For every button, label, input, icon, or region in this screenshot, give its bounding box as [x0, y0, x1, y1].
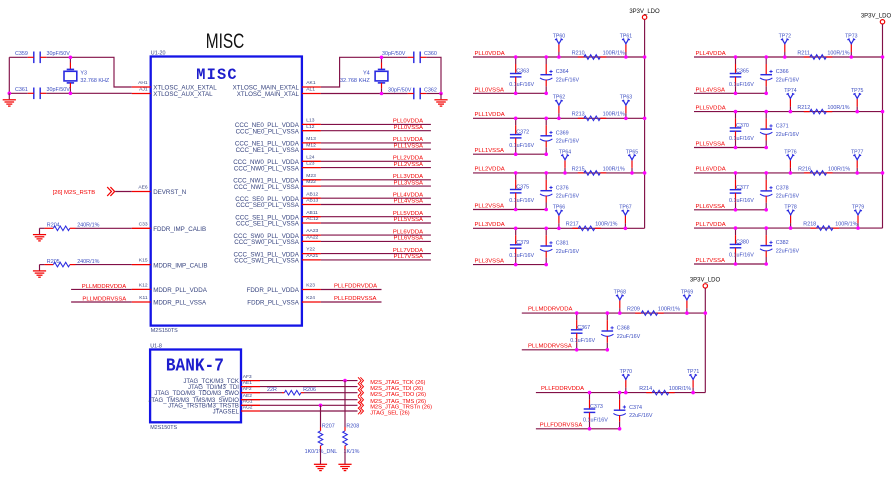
svg-text:TP62: TP62	[553, 95, 566, 101]
svg-text:L12: L12	[306, 124, 314, 130]
svg-text:CCC_SW1_PLL_VSSA: CCC_SW1_PLL_VSSA	[234, 258, 300, 265]
junction PLL6VSSA at C378	[764, 208, 768, 212]
svg-text:C372: C372	[516, 130, 529, 136]
svg-text:U1-20: U1-20	[151, 51, 166, 57]
test point TP64	[564, 168, 566, 173]
pin AF2 JTAG_TDO/M3_TDO/M3_SWO of U1-8	[241, 392, 260, 394]
svg-text:R208: R208	[346, 423, 359, 429]
junction PLL6VDDA at 3P3V_LDO rail	[881, 171, 885, 175]
test point TP67	[624, 223, 626, 228]
wire AF3 to off-page	[260, 380, 358, 382]
resistor R211 100R/1%	[804, 56, 810, 58]
svg-text:100R/1%: 100R/1%	[603, 112, 625, 118]
junction node Y3 top	[69, 56, 73, 60]
wire net PLL4VDDA	[321, 197, 431, 199]
pin K24 FDDR_PLL_VSSA of U1-20	[302, 301, 321, 303]
svg-text:AA21: AA21	[306, 253, 318, 259]
wire XTLOSC_AUX_EXTAL top	[9, 56, 28, 58]
wire net PLL5VSSA	[694, 147, 766, 149]
svg-text:Y4: Y4	[363, 70, 370, 76]
svg-text:C360: C360	[424, 51, 437, 57]
svg-text:TP79: TP79	[852, 205, 865, 211]
wire net PLL5VSSA	[321, 222, 431, 224]
pin L23 CCC_NW0_PLL_VSSA of U1-20	[302, 167, 321, 169]
wire net PLL1VSSA	[321, 148, 431, 150]
svg-text:R213: R213	[572, 112, 585, 118]
capacitor C381 22uF/16V	[545, 228, 547, 235]
wire net PLL2VSSA	[473, 209, 546, 211]
capacitor C370 0.1uF/16V	[735, 112, 737, 119]
wire XTLOSC_MAIN_XTAL	[321, 93, 382, 95]
svg-text:M13: M13	[306, 136, 316, 142]
svg-text:PLLFDDRVDDA: PLLFDDRVDDA	[541, 386, 584, 392]
junction PLL2VDDA at TP65	[630, 171, 634, 175]
svg-text:TP76: TP76	[784, 149, 797, 155]
svg-text:100R/1%: 100R/1%	[669, 386, 691, 392]
svg-text:C378: C378	[776, 186, 789, 192]
svg-text:K11: K11	[139, 295, 148, 301]
svg-text:AF3: AF3	[243, 374, 252, 380]
svg-text:AE6: AE6	[138, 185, 148, 191]
junction PLL5VDDA at C370	[734, 110, 738, 114]
svg-text:MISC: MISC	[206, 30, 245, 53]
IC U1-8 BANK-7 block outline	[150, 350, 241, 423]
svg-text:0.1uF/16V: 0.1uF/16V	[729, 253, 754, 259]
wire net PLL6VDDA	[321, 234, 431, 236]
junction node R207 tap on JTAG_TRSTB	[319, 404, 323, 408]
svg-text:R211: R211	[797, 50, 810, 56]
test point TP61	[625, 52, 627, 57]
pin M13 CCC_NE1_PLL_VDDA of U1-20	[302, 142, 321, 144]
pin AA22 CCC_SW0_PLL_VSSA of U1-20	[302, 240, 321, 242]
capacitor C379 0.1uF/16V	[515, 228, 517, 235]
junction PLL6VDDA at C377	[734, 171, 738, 175]
junction PLLMDDRVSSA at C368	[606, 348, 610, 352]
svg-text:L24: L24	[306, 154, 314, 160]
junction PLLMDDRVDDA at TP68	[618, 311, 622, 315]
svg-text:L23: L23	[306, 161, 314, 167]
junction PLLMDDRVSSA at C367	[575, 348, 579, 352]
svg-text:22uF/16V: 22uF/16V	[776, 194, 800, 200]
resistor R212 100R/1%	[804, 111, 810, 113]
svg-text:22uF/16V: 22uF/16V	[629, 413, 653, 419]
svg-text:TP61: TP61	[620, 33, 633, 39]
junction PLL7VDDA at TP78	[789, 226, 793, 230]
svg-text:PLL0VSSA: PLL0VSSA	[475, 87, 505, 93]
svg-text:DEVRST_N: DEVRST_N	[153, 189, 186, 196]
svg-text:PLL0VDDA: PLL0VDDA	[393, 119, 423, 125]
svg-text:[26] M2S_RSTB: [26] M2S_RSTB	[53, 190, 96, 196]
test point TP62	[558, 113, 560, 118]
junction PLL1VDDA at TP62	[557, 117, 561, 121]
svg-text:AB11: AB11	[306, 210, 318, 216]
junction node ground left	[8, 92, 12, 96]
svg-text:32.768 KHZ: 32.768 KHZ	[340, 78, 370, 84]
svg-text:PLLMDDRVDDA: PLLMDDRVDDA	[528, 307, 572, 313]
junction node R208 tap on JTAG_TCK	[343, 379, 347, 383]
svg-text:100R/1%: 100R/1%	[603, 50, 625, 56]
wire net PLLMDDRVDDA to K12	[71, 288, 132, 290]
svg-text:PLLMDDRVSSA: PLLMDDRVSSA	[82, 296, 126, 302]
svg-text:C361: C361	[15, 87, 28, 93]
svg-text:0.1uF/16V: 0.1uF/16V	[583, 417, 608, 423]
junction PLL2VDDA at C375	[514, 171, 518, 175]
svg-text:C362: C362	[424, 87, 437, 93]
capacitor C363 0.1uF/16V	[515, 57, 517, 64]
svg-text:M2S150TS: M2S150TS	[151, 328, 178, 334]
svg-text:PLL1VSSA: PLL1VSSA	[475, 148, 505, 154]
svg-text:M22: M22	[306, 179, 316, 185]
svg-text:PLLMDDRVDDA: PLLMDDRVDDA	[82, 284, 126, 290]
wire 3P3V_LDO rail left column	[644, 19, 646, 228]
svg-text:0.1uF/16V: 0.1uF/16V	[570, 338, 595, 344]
svg-text:JTAGSEL: JTAGSEL	[213, 409, 240, 415]
pin L12 CCC_NE0_PLL_VSSA of U1-20	[302, 130, 321, 132]
svg-text:R214: R214	[639, 386, 652, 392]
junction PLL3VDDA at C381	[544, 227, 548, 231]
svg-text:TP63: TP63	[620, 95, 633, 101]
wire net PLL0VDDA	[321, 123, 431, 125]
svg-text:R217: R217	[566, 222, 579, 228]
svg-text:TP66: TP66	[553, 205, 566, 211]
wire net PLL7VSSA	[321, 259, 431, 261]
wire net PLL1VDDA	[321, 142, 431, 144]
svg-text:3P3V_LDO: 3P3V_LDO	[629, 9, 660, 15]
wire left vertical to ground	[8, 57, 10, 93]
junction PLL1VDDA at C369	[544, 117, 548, 121]
junction node Y4 top	[380, 56, 384, 60]
svg-text:TP68: TP68	[614, 290, 627, 296]
svg-text:AA22: AA22	[306, 235, 318, 241]
svg-text:AG2: AG2	[243, 404, 253, 410]
junction PLL4VSSA at C366	[764, 92, 768, 96]
junction PLLFDDRVDDA at C374	[618, 391, 622, 395]
svg-text:C381: C381	[556, 241, 569, 247]
svg-text:PLL0VDDA: PLL0VDDA	[475, 51, 505, 57]
svg-text:PLLMDDRVSSA: PLLMDDRVSSA	[528, 344, 572, 350]
svg-text:C369: C369	[556, 130, 569, 136]
svg-text:R215: R215	[572, 166, 585, 172]
test point TP63	[625, 113, 627, 118]
svg-text:FDDR_PLL_VDDA: FDDR_PLL_VDDA	[247, 287, 300, 294]
wire 3P3V_LDO rail right column	[882, 24, 884, 228]
off-page connector chevron M2S_JTAG_TDI (26)	[358, 383, 364, 390]
junction PLLMDDRVDDA at C367	[575, 311, 579, 315]
svg-text:PLL7VSSA: PLL7VSSA	[696, 258, 726, 264]
svg-text:CCC_NE0_PLL_VSSA: CCC_NE0_PLL_VSSA	[236, 128, 300, 135]
svg-text:100R/1%: 100R/1%	[658, 307, 680, 313]
svg-text:22R: 22R	[267, 387, 277, 393]
test point TP76	[789, 168, 791, 173]
resistor R216 100R/1%	[804, 172, 810, 174]
svg-text:R216: R216	[798, 166, 811, 172]
svg-text:0.1uF/16V: 0.1uF/16V	[729, 136, 754, 142]
junction PLL7VDDA at C382	[764, 226, 768, 230]
svg-text:AJ1: AJ1	[139, 87, 148, 93]
svg-text:R204: R204	[47, 223, 60, 229]
pin AA23 CCC_SW0_PLL_VDDA of U1-20	[302, 234, 321, 236]
svg-text:3P3V_LDO: 3P3V_LDO	[690, 278, 721, 284]
svg-text:K23: K23	[306, 283, 315, 289]
wire XTLOSC_AUX_XTAL bottom	[9, 92, 28, 94]
svg-text:AL1: AL1	[306, 87, 315, 93]
svg-text:PLL3VSSA: PLL3VSSA	[394, 180, 424, 186]
svg-text:CCC_NW1_PLL_VSSA: CCC_NW1_PLL_VSSA	[234, 184, 300, 191]
ground	[39, 265, 41, 271]
svg-text:JTAG_TDI/M3_TDI: JTAG_TDI/M3_TDI	[188, 385, 239, 391]
pin AA21 CCC_SW1_PLL_VSSA of U1-20	[302, 259, 321, 261]
svg-text:AA23: AA23	[306, 228, 318, 234]
svg-text:C373: C373	[590, 404, 603, 410]
pin K11 MDDR_PLL_VSSA of U1-20	[132, 301, 151, 303]
svg-text:AE2: AE2	[243, 393, 253, 399]
svg-text:22uF/16V: 22uF/16V	[556, 194, 580, 200]
svg-text:M2S_JTAG_TDI (26): M2S_JTAG_TDI (26)	[370, 386, 423, 392]
pin AB12 CCC_SE0_PLL_VDDA of U1-20	[302, 197, 321, 199]
junction PLL4VDDA at TP72	[783, 55, 787, 59]
wire net PLLMDDRVDDA	[522, 312, 706, 314]
svg-text:1K/1%: 1K/1%	[344, 449, 360, 455]
svg-text:K15: K15	[139, 258, 148, 264]
pin AF3 JTAG_TCK/M3_TCK of U1-8	[241, 380, 260, 382]
svg-text:C365: C365	[736, 69, 749, 75]
svg-text:240R/1%: 240R/1%	[77, 223, 99, 229]
svg-text:CCC_NE1_PLL_VSSA: CCC_NE1_PLL_VSSA	[236, 147, 300, 154]
wire R205 to K15	[76, 264, 132, 266]
test point TP75	[856, 107, 858, 112]
svg-text:32.768 KHZ: 32.768 KHZ	[80, 78, 109, 84]
svg-text:0.1uF/16V: 0.1uF/16V	[509, 82, 534, 88]
svg-text:PLL6VSSA: PLL6VSSA	[394, 236, 424, 242]
svg-text:AF2: AF2	[243, 386, 252, 392]
svg-text:100R/1%: 100R/1%	[827, 50, 849, 56]
svg-text:PLL2VDDA: PLL2VDDA	[393, 156, 423, 162]
svg-text:M2S_JTAG_TDO (26): M2S_JTAG_TDO (26)	[370, 392, 426, 398]
svg-text:PLLFDDRVSSA: PLLFDDRVSSA	[334, 296, 377, 302]
wire net PLLFDDRVSSA	[536, 428, 620, 430]
test point TP60	[558, 52, 560, 57]
capacitor C360 30pF/50V	[414, 52, 420, 64]
pin AE2 JTAG_TMS/M3_TMS/M3_SWDIO of U1-8	[241, 399, 260, 401]
wire C360 to rail	[426, 57, 441, 93]
junction PLL0VSSA at C364	[544, 92, 548, 96]
off-page connector chevron M2S_JTAG_TCK (26)	[358, 377, 364, 384]
svg-text:XTLOSC_MAIN_XTAL: XTLOSC_MAIN_XTAL	[237, 91, 300, 98]
capacitor C372 0.1uF/16V	[515, 118, 517, 125]
test point TP72	[784, 52, 786, 57]
pin AE6 DEVRST_N of U1-20	[132, 191, 151, 193]
junction PLL0VDDA at 3P3V_LDO rail	[643, 55, 647, 59]
svg-text:PLL0VSSA: PLL0VSSA	[394, 125, 424, 131]
junction PLL0VDDA at TP61	[624, 55, 628, 59]
wire net PLLFDDRVDDA	[536, 392, 705, 394]
svg-text:MISC: MISC	[196, 66, 238, 84]
wire 3P3V_LDO rail mddr/fddr	[704, 288, 706, 393]
svg-text:PLL2VSSA: PLL2VSSA	[394, 162, 424, 168]
junction PLLFDDRVSSA at C373	[588, 427, 592, 431]
capacitor C361 30pF/50V	[34, 88, 40, 100]
pin AL1 XTLOSC_MAIN_XTAL of U1-20	[302, 93, 321, 95]
svg-text:FDDR_IMP_CALIB: FDDR_IMP_CALIB	[153, 226, 206, 233]
junction PLL6VDDA at TP77	[855, 171, 859, 175]
svg-text:TP77: TP77	[851, 149, 864, 155]
svg-text:PLL2VSSA: PLL2VSSA	[475, 204, 505, 210]
svg-text:0.1uF/16V: 0.1uF/16V	[729, 198, 754, 204]
svg-text:C364: C364	[556, 69, 569, 75]
resistor R210 100R/1%	[578, 56, 584, 58]
pin M23 CCC_NW1_PLL_VDDA of U1-20	[302, 179, 321, 181]
wire net PLL7VSSA	[694, 263, 766, 265]
svg-text:R209: R209	[627, 307, 640, 313]
wire net PLL3VDDA	[473, 227, 645, 229]
pin AH1 XTLOSC_AUX_EXTAL of U1-20	[132, 86, 151, 88]
ground	[338, 464, 351, 470]
resistor R206 22R	[282, 392, 284, 394]
svg-text:C380: C380	[736, 240, 749, 246]
junction PLL0VSSA at C363	[514, 92, 518, 96]
junction PLL4VSSA at C365	[734, 92, 738, 96]
pin L13 CCC_NE0_PLL_VDDA of U1-20	[302, 123, 321, 125]
svg-text:TP78: TP78	[784, 205, 797, 211]
junction PLL7VDDA at C380	[734, 226, 738, 230]
junction PLL1VSSA at C369	[544, 152, 548, 156]
svg-text:R207: R207	[322, 423, 335, 429]
crystal Y4 32.768 KHZ	[381, 57, 383, 62]
wire net PLLMDDRVSSA	[522, 349, 608, 351]
test point TP70	[625, 388, 627, 393]
capacitor C375 0.1uF/16V	[515, 173, 517, 180]
svg-text:30pF/50V: 30pF/50V	[382, 51, 406, 57]
wire net PLL4VDDA	[694, 56, 883, 58]
resistor R207 1K0/1% DNL	[320, 405, 322, 427]
wire net PLL3VSSA	[473, 264, 546, 266]
wire net PLL1VSSA	[473, 153, 546, 155]
svg-text:C377: C377	[736, 185, 749, 191]
junction PLL4VDDA at 3P3V_LDO rail	[881, 55, 885, 59]
svg-text:PLL4VSSA: PLL4VSSA	[394, 199, 424, 205]
svg-text:100R/1%: 100R/1%	[835, 222, 857, 228]
junction node Y4 bottom	[380, 92, 384, 96]
junction PLL1VDDA at TP63	[624, 117, 628, 121]
wire net PLL2VSSA	[321, 167, 431, 169]
wire R208 to ground	[344, 449, 346, 464]
svg-text:MDDR_PLL_VDDA: MDDR_PLL_VDDA	[153, 287, 208, 294]
pin AJ1 XTLOSC_AUX_XTAL of U1-20	[132, 93, 151, 95]
off-page connector chevron JTAG_SEL (26)	[358, 408, 364, 415]
capacitor C359 30pF/50V	[34, 52, 40, 64]
wire net PLLFDDRVDDA	[321, 289, 382, 291]
svg-text:0.1uF/16V: 0.1uF/16V	[509, 143, 534, 149]
svg-text:R218: R218	[803, 222, 816, 228]
junction PLLFDDRVDDA at TP70	[624, 391, 628, 395]
svg-text:30pF/50V: 30pF/50V	[47, 87, 71, 93]
svg-text:TP64: TP64	[559, 149, 572, 155]
junction PLL5VSSA at C370	[734, 146, 738, 150]
wire net PLL4VSSA	[321, 204, 431, 206]
junction PLL2VSSA at C375	[514, 208, 518, 212]
svg-text:PLL5VSSA: PLL5VSSA	[394, 217, 424, 223]
capacitor C368 22uF/16V	[606, 313, 608, 320]
junction PLL5VDDA at TP74	[789, 110, 793, 114]
svg-text:PLL5VSSA: PLL5VSSA	[696, 142, 726, 148]
capacitor C367 0.1uF/16V	[576, 313, 578, 320]
wire net PLL0VSSA	[473, 92, 546, 94]
capacitor C378 22uF/16V	[765, 173, 767, 180]
wire net PLL1VDDA	[473, 117, 645, 119]
svg-text:22uF/16V: 22uF/16V	[776, 78, 800, 84]
test point TP79	[857, 223, 859, 228]
svg-text:FDDR_PLL_VSSA: FDDR_PLL_VSSA	[247, 300, 299, 307]
junction PLL4VDDA at TP73	[850, 55, 854, 59]
svg-text:C33: C33	[139, 221, 148, 227]
resistor R205 240R/1%	[45, 264, 54, 266]
svg-text:22uF/16V: 22uF/16V	[556, 139, 580, 145]
off-page connector chevron M2S_RSTB	[107, 187, 114, 196]
svg-text:0.1uF/16V: 0.1uF/16V	[509, 198, 534, 204]
svg-text:100R/1%: 100R/1%	[828, 166, 850, 172]
junction PLLFDDRVDDA at TP71	[691, 391, 695, 395]
pin Y22 CCC_SW1_PLL_VDDA of U1-20	[302, 253, 321, 255]
pin M22 CCC_NW1_PLL_VSSA of U1-20	[302, 185, 321, 187]
junction PLL6VSSA at C377	[734, 208, 738, 212]
junction PLL5VDDA at C371	[764, 110, 768, 114]
svg-text:R210: R210	[572, 50, 585, 56]
junction PLL4VDDA at C365	[734, 55, 738, 59]
svg-text:R205: R205	[47, 259, 60, 265]
junction PLLFDDRVDDA at C373	[588, 391, 592, 395]
svg-text:PLLFDDRVSSA: PLLFDDRVSSA	[540, 423, 583, 429]
off-page connector chevron M2S_JTAG_TMS (26)	[358, 396, 364, 403]
wire XTLOSC_MAIN_EXTAL	[321, 57, 382, 87]
pin AG2 JTAGSEL of U1-8	[241, 410, 260, 412]
resistor R215 100R/1%	[578, 172, 584, 174]
svg-text:TP69: TP69	[681, 290, 694, 296]
svg-text:CCC_SE0_PLL_VSSA: CCC_SE0_PLL_VSSA	[236, 202, 300, 209]
wire R204 to C33	[76, 227, 132, 229]
svg-text:C376: C376	[556, 185, 569, 191]
svg-text:PLL7VSSA: PLL7VSSA	[394, 254, 424, 260]
junction PLL2VDDA at TP64	[563, 171, 567, 175]
pin AC12 CCC_SE1_PLL_VSSA of U1-20	[302, 222, 321, 224]
pin AB11 CCC_SE1_PLL_VDDA of U1-20	[302, 216, 321, 218]
svg-text:PLL4VDDA: PLL4VDDA	[393, 192, 423, 198]
junction PLL5VSSA at C371	[764, 146, 768, 150]
svg-text:M23: M23	[306, 173, 316, 179]
svg-text:C366: C366	[776, 69, 789, 75]
svg-text:PLL1VDDA: PLL1VDDA	[393, 137, 423, 143]
pin AE1 JTAG_TDI/M3_TDI of U1-8	[241, 386, 260, 388]
svg-text:TP71: TP71	[687, 369, 700, 375]
svg-text:22uF/16V: 22uF/16V	[776, 132, 800, 138]
svg-text:AG1: AG1	[243, 399, 253, 405]
wire net PLLFDDRVSSA	[321, 301, 382, 303]
wire AE2 to off-page	[260, 399, 358, 401]
svg-text:AK1: AK1	[306, 80, 316, 86]
wire net PLL3VDDA	[321, 179, 431, 181]
svg-text:K24: K24	[306, 295, 315, 301]
svg-text:BANK-7: BANK-7	[166, 356, 224, 376]
svg-text:0.1uF/16V: 0.1uF/16V	[729, 82, 754, 88]
svg-text:PLLFDDRVDDA: PLLFDDRVDDA	[334, 284, 377, 290]
svg-text:C375: C375	[516, 185, 529, 191]
pin C33 FDDR_IMP_CALIB of U1-20	[132, 227, 151, 229]
wire M2S_RSTB to DEVRST_N	[115, 191, 132, 193]
junction PLL2VDDA at 3P3V_LDO rail	[643, 171, 647, 175]
capacitor C371 22uF/16V	[765, 112, 767, 119]
test point TP66	[558, 223, 560, 228]
svg-text:100R/1%: 100R/1%	[595, 222, 617, 228]
svg-text:PLL6VSSA: PLL6VSSA	[696, 204, 726, 210]
